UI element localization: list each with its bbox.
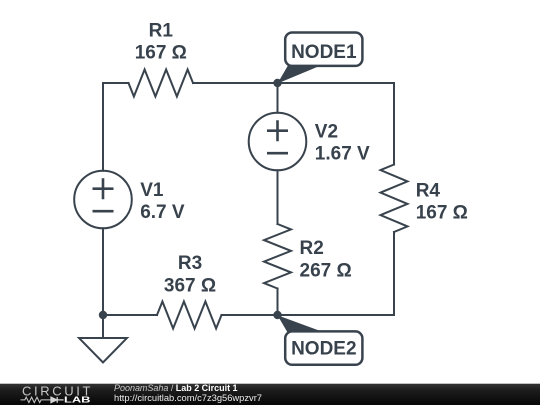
svg-text:167 Ω: 167 Ω [416, 203, 468, 224]
svg-text:R2: R2 [300, 238, 324, 259]
node NODE2 flag box [285, 331, 362, 364]
svg-text:R3: R3 [178, 253, 202, 274]
svg-text:PoonamSaha / Lab 2 Circuit 1: PoonamSaha / Lab 2 Circuit 1 [114, 383, 238, 393]
resistor R4 zigzag [381, 165, 408, 233]
voltage source V1 circle [74, 171, 132, 229]
wire: left rail stub from junction down to ground [102, 315, 104, 338]
wire: bottom rail from left junction to R3 [103, 314, 157, 316]
footer logo resistor zigzag [21, 397, 51, 402]
svg-text:NODE2: NODE2 [291, 339, 356, 360]
svg-text:V2: V2 [315, 122, 338, 143]
voltage source V2 circle [249, 113, 307, 171]
wire: top rail left segment from corner to R1 [103, 82, 129, 84]
V2 minus symbol [268, 152, 286, 155]
V1 minus symbol [94, 210, 112, 213]
svg-text:267 Ω: 267 Ω [300, 260, 352, 281]
resistor R3 zigzag [157, 302, 222, 329]
wire: right rail from top corner to R4 [393, 83, 395, 165]
node junction dot at NODE1 [273, 79, 281, 87]
resistor R2 zigzag [264, 224, 291, 289]
node NODE2 flag pointer [278, 315, 322, 333]
wire: left rail from V1 to bottom junction [102, 228, 104, 315]
wire: bottom rail from R3 through NODE2 junction to bottom-right corner [222, 314, 395, 316]
node junction dot at bottom-left ground node [99, 311, 107, 319]
wire: middle branch from R2 to NODE2 junction [277, 289, 279, 316]
svg-text:R1: R1 [149, 20, 174, 41]
wire: right rail from R4 to bottom corner [393, 232, 395, 315]
wire: left rail top segment from corner to V1 [102, 83, 104, 171]
svg-text:V1: V1 [140, 180, 164, 201]
footer logo diode symbol [51, 397, 64, 403]
svg-text:367 Ω: 367 Ω [164, 275, 216, 296]
node NODE1 flag box [285, 33, 362, 66]
wire: middle branch from NODE1 junction to V2 [277, 83, 279, 113]
svg-text:1.67 V: 1.67 V [315, 144, 370, 165]
V1 plus symbol [94, 180, 112, 198]
node junction dot at NODE2 [273, 311, 281, 319]
resistor R1 zigzag [129, 70, 194, 97]
wire: top rail from R1 through NODE1 junction to top-right corner [193, 82, 394, 84]
svg-text:LAB: LAB [64, 395, 91, 404]
footer bar background [0, 384, 540, 405]
V2 plus symbol [268, 122, 286, 140]
wire: middle branch from V2 to R2 [277, 170, 279, 224]
svg-text:NODE1: NODE1 [291, 42, 357, 63]
ground symbol [79, 338, 127, 363]
node NODE1 flag pointer [278, 65, 323, 84]
svg-text:R4: R4 [416, 180, 441, 201]
svg-text:167 Ω: 167 Ω [135, 42, 187, 63]
svg-text:http://circuitlab.com/c7z3g56w: http://circuitlab.com/c7z3g56wpzvr7 [114, 393, 262, 403]
svg-text:6.7 V: 6.7 V [140, 202, 185, 223]
